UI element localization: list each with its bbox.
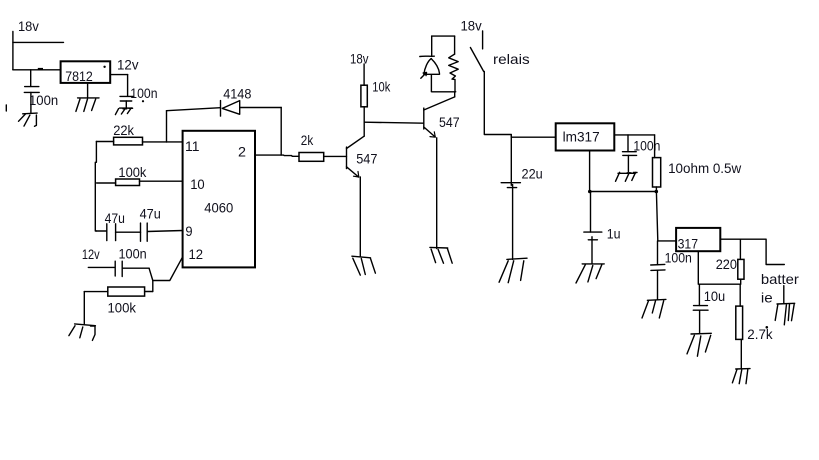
ground Q1 emitter	[352, 256, 376, 275]
svg-text:12v: 12v	[117, 56, 139, 72]
capacitor C10 100n	[88, 261, 149, 276]
junction dot adj left	[588, 190, 592, 194]
svg-text:18v: 18v	[461, 17, 482, 33]
wire 12v down to C2	[127, 75, 129, 97]
svg-text:10u: 10u	[704, 288, 726, 304]
svg-text:lm317: lm317	[563, 129, 600, 145]
svg-text:22k: 22k	[113, 122, 135, 138]
stray pen mark left edge	[5, 105, 7, 111]
wire 7812 output	[110, 74, 127, 76]
svg-text:220: 220	[716, 256, 737, 272]
resistor R7 2.7k	[736, 284, 743, 368]
wire junction down to R8	[152, 281, 154, 292]
wire relay switch down to lm317 input	[484, 72, 555, 138]
regulator U3 lm317 box	[556, 123, 615, 150]
resistor R8 100k	[84, 287, 153, 324]
svg-text:relais: relais	[493, 51, 530, 67]
ground under C1	[19, 113, 38, 126]
svg-text:100n: 100n	[633, 137, 660, 153]
wire 10ohm junction down to 317 input	[656, 192, 676, 265]
svg-text:2k: 2k	[301, 132, 314, 148]
ground under R7 2.7k	[732, 369, 750, 384]
svg-text:10k: 10k	[372, 78, 391, 94]
svg-text:47u: 47u	[105, 210, 125, 226]
resistor zigzag relay coil	[449, 54, 459, 92]
svg-text:2: 2	[238, 143, 246, 159]
svg-text:4060: 4060	[204, 199, 233, 215]
svg-text:100n: 100n	[119, 245, 147, 261]
svg-text:22u: 22u	[522, 165, 543, 181]
svg-text:18v: 18v	[350, 50, 369, 66]
svg-text:11: 11	[185, 138, 200, 154]
ground under C9 10u	[687, 333, 711, 356]
stray dot below ie	[766, 326, 769, 329]
junction dot adj right	[655, 190, 659, 194]
svg-text:batter: batter	[761, 271, 799, 287]
ground under C6 scribble	[616, 172, 638, 181]
ground under C2 scribble	[115, 108, 132, 115]
svg-text:7812: 7812	[65, 68, 93, 84]
ground battery negative	[775, 286, 795, 325]
svg-text:10: 10	[190, 176, 205, 192]
resistor R4 10k	[361, 85, 367, 136]
relay coil loop	[431, 36, 455, 92]
resistor R2 100k	[97, 179, 183, 186]
svg-text:547: 547	[356, 151, 377, 167]
resistor R3 2k	[299, 153, 347, 162]
ground Q2 emitter	[430, 247, 452, 263]
switch relais contact blade	[470, 48, 483, 72]
svg-text:4148: 4148	[223, 86, 251, 102]
ground under C8	[642, 299, 666, 318]
ground under C5 22u	[499, 258, 527, 283]
wire 18v to 10k	[363, 64, 365, 85]
wire lm317 output	[614, 134, 654, 136]
wire lm317 adj pin down	[589, 151, 591, 192]
ground under R8	[69, 324, 96, 341]
stray dot in 7812 box	[103, 66, 105, 68]
wire lm317 out down to 10ohm	[654, 135, 656, 158]
svg-text:ie: ie	[761, 289, 773, 305]
capacitor C3 47u	[96, 224, 140, 241]
capacitor C9 10u	[693, 284, 708, 333]
capacitor C7 1u	[584, 192, 602, 264]
capacitor C5 22u	[501, 135, 520, 260]
capacitor C6 100n	[623, 135, 637, 172]
diode D2 flyback in coil loop	[420, 56, 440, 78]
svg-text:12: 12	[189, 246, 204, 262]
wire 18v to 7812 input	[13, 69, 61, 71]
svg-text:100n: 100n	[29, 92, 58, 108]
svg-text:100k: 100k	[108, 300, 137, 316]
svg-text:100n: 100n	[130, 85, 157, 101]
svg-text:18v: 18v	[18, 18, 39, 34]
capacitor C8 100n	[651, 264, 665, 299]
svg-text:317: 317	[678, 235, 699, 251]
IC U2 4060 box	[183, 131, 255, 268]
svg-text:100k: 100k	[118, 164, 147, 180]
ground under C7 1u	[576, 264, 604, 283]
capacitor C4 47u	[141, 223, 183, 241]
wire 18v stub	[13, 41, 64, 43]
wire pin2 output	[255, 155, 299, 156]
wire lm317 adj line	[590, 191, 657, 193]
resistor R5 10ohm	[653, 158, 661, 192]
diode D1 4148	[167, 101, 282, 156]
transistor Q2 547	[424, 92, 455, 249]
ground pin of 7812	[76, 83, 99, 112]
svg-text:2.7k: 2.7k	[747, 326, 773, 342]
regulator U4 317 box	[676, 228, 720, 251]
svg-text:9: 9	[185, 223, 192, 239]
stray dot right of C2	[142, 100, 144, 102]
regulator U1 7812 box	[61, 61, 111, 83]
wire left rail of 4060 network	[95, 142, 96, 232]
wire 317 output to battery stub	[720, 239, 784, 264]
transistor Q1 547	[347, 136, 365, 257]
resistor R1 22k	[96, 137, 182, 145]
svg-text:10ohm 0.5w: 10ohm 0.5w	[668, 160, 742, 176]
svg-text:12v: 12v	[82, 246, 100, 262]
svg-text:47u: 47u	[140, 205, 161, 221]
wire thick dash on input wire	[38, 68, 43, 71]
svg-text:547: 547	[439, 114, 460, 130]
wire 18v down to switch	[482, 31, 484, 49]
capacitor C2 100n	[120, 96, 134, 107]
wire 18v vertical	[12, 32, 14, 70]
wire C10 to pin12 diagonal	[149, 257, 182, 280]
svg-text:1u: 1u	[607, 225, 621, 241]
wire 317 adj down and right	[698, 251, 740, 284]
capacitor C1 100n	[24, 70, 39, 113]
resistor R6 220	[738, 239, 744, 284]
wire Q1 collector to Q2 base	[364, 122, 424, 123]
